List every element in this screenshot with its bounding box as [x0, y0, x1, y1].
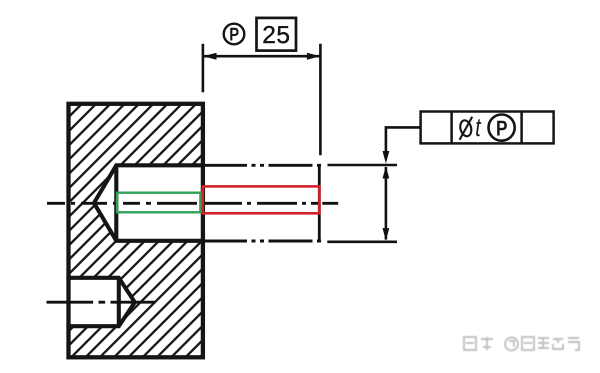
feature control frame — [421, 112, 554, 144]
upper hole outline (drilled from right face) — [94, 165, 203, 241]
green tolerance zone rectangle — [117, 193, 200, 213]
dimension extension line (right, from zone end) — [319, 44, 322, 155]
boxed dimension value 25 — [257, 18, 297, 51]
lower hole outline (drilled from left face) — [66, 278, 134, 326]
left arrowhead — [203, 53, 217, 60]
upper hole centre line — [47, 202, 338, 205]
projected zone end boundary — [318, 164, 321, 242]
red projected tolerance zone rectangle — [203, 186, 320, 213]
lower hole centre line — [47, 301, 156, 304]
FCF divider 2 — [520, 112, 523, 144]
bottom extension of zone line — [327, 241, 397, 244]
top extension of zone line — [328, 164, 398, 167]
diameter symbol — [459, 117, 473, 140]
lower hole cone-base line — [117, 278, 121, 326]
circled P in FCF — [489, 115, 515, 141]
svg-text:P: P — [496, 116, 507, 140]
svg-text:P: P — [229, 24, 239, 45]
svg-text:25: 25 — [262, 22, 290, 49]
FCF divider 1 — [450, 112, 453, 144]
dimension extension line (left, from block face) — [202, 44, 205, 93]
projected zone top phantom line — [203, 164, 321, 167]
dimension line 25 — [203, 55, 320, 58]
right arrowhead — [307, 53, 321, 60]
up arrowhead — [383, 166, 390, 179]
watermark (faint) — [464, 337, 579, 351]
section hatching of block (block minus holes) — [69, 104, 203, 357]
leader line from FCF — [386, 127, 421, 151]
block outline — [69, 104, 203, 357]
upper hole cone-base line — [114, 165, 118, 241]
leader arrowhead (down) — [383, 151, 390, 164]
projected zone bottom phantom line — [203, 240, 321, 243]
zone height dimension line — [385, 167, 388, 240]
down arrowhead — [383, 228, 390, 241]
circled P symbol (projected tolerance) — [224, 24, 245, 45]
